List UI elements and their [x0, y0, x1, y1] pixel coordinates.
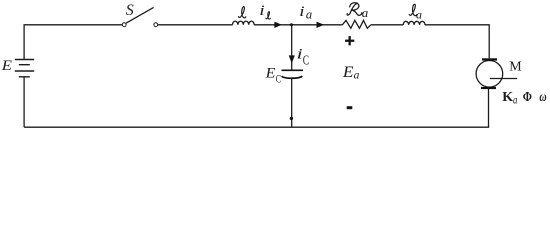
svg-text:E: E: [265, 65, 276, 81]
svg-text:K: K: [502, 90, 513, 105]
svg-text:a: a: [306, 7, 312, 21]
svg-text:i: i: [259, 3, 265, 19]
svg-text:C: C: [276, 71, 281, 85]
svg-text:Φ: Φ: [523, 90, 533, 105]
svg-text:i: i: [297, 46, 303, 62]
svg-text:a: a: [354, 70, 360, 82]
svg-text:ω: ω: [539, 90, 546, 105]
svg-text:S: S: [126, 2, 134, 19]
svg-text:E: E: [342, 64, 354, 81]
svg-text:M: M: [509, 59, 522, 74]
svg-text:a: a: [416, 7, 422, 21]
svg-text:a: a: [513, 93, 517, 107]
svg-text:i: i: [299, 4, 305, 20]
svg-text:E: E: [1, 58, 12, 74]
svg-text:C: C: [303, 53, 309, 68]
svg-text:a: a: [362, 5, 369, 20]
